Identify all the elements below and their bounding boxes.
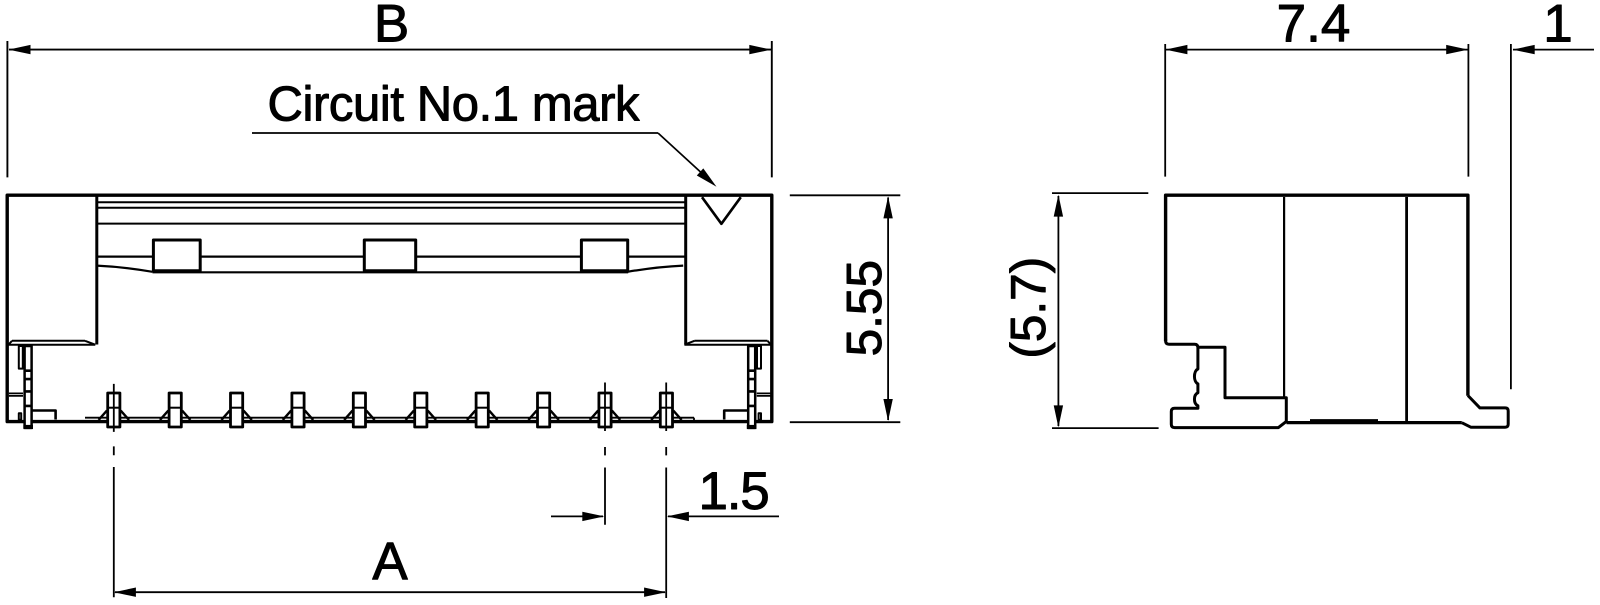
latch boss 1 [153,240,200,271]
dimension 5.7 arrowhead top [1054,195,1063,217]
dimension 1.5 tail left [551,515,603,517]
centerline pin 10 [665,383,667,599]
pin 9 [590,393,620,427]
dimension 1 extension line [1510,44,1512,389]
dimension 5.55 arrowhead top [883,196,892,218]
solder tab right joints [748,371,755,406]
solder tab left lower stub [19,413,21,420]
dimension 5.55 arrowhead bottom [883,399,892,421]
leader Circuit No.1 mark diagonal [658,133,712,183]
svg-text:5.55: 5.55 [837,260,892,356]
cavity upper line segment 2 [200,256,364,258]
dimension 7.4 arrowhead right [1446,45,1468,54]
solder tab left step [32,411,56,420]
dimension A arrowhead left [114,588,136,597]
dimension 7.4 arrowhead left [1165,45,1187,54]
dimension B line [9,49,771,51]
dimension A line [115,591,665,593]
housing top groove line 1 [97,201,686,203]
dimension 5.55 extension bottom [790,421,901,423]
solder tab right step [724,411,748,420]
connector body outline (front view) [7,195,772,421]
cavity upper line segment 1 [97,256,154,258]
end wall inner edge right [684,196,687,345]
pin 2 [160,393,190,427]
dimension 1.5 arrowhead left [582,512,604,521]
housing top groove line 3 [97,223,686,225]
side view bottom seam dash [1310,419,1378,422]
side view metal fitting outer contour [1166,339,1287,428]
seating strip thin line [85,417,694,419]
pin 7 [467,393,497,427]
solder tab right ledge lines [757,393,771,396]
dimension 1 tail [1513,49,1594,51]
dimension 5.55 line [887,198,889,421]
centerline pin 9 [604,383,606,525]
side view body outline [1166,195,1468,396]
svg-text:7.4: 7.4 [1277,0,1351,54]
side view bottom edge [1287,421,1462,424]
dimension 5.7 extension bottom [1052,427,1159,429]
seating strip step right [693,418,695,422]
pin 3 [221,393,251,427]
solder tab left upper bar [19,346,23,369]
end wall bottom chamfer band left [9,341,96,345]
dimension 7.4 extension left [1164,44,1166,177]
dimension 7.4 extension right [1467,44,1469,177]
dimension 5.7 extension top [1052,192,1148,194]
dimension 5.55 extension top [790,194,901,196]
solder tab left leg [25,346,32,428]
pin 5 [344,393,374,427]
cavity lower line [153,271,629,273]
end wall bottom chamfer band right [684,341,771,345]
dimension 1.5 tail right [668,515,779,517]
cavity wave right [628,266,684,272]
svg-text:(5.7): (5.7) [1001,257,1056,359]
solder tab left joints [25,371,32,406]
pin 6 [406,393,436,427]
solder tab right foot cap [747,425,757,429]
dimension 1.5 arrowhead right [667,512,689,521]
svg-text:1.5: 1.5 [698,462,768,521]
side view metal fitting inner contour [1199,347,1287,421]
side view inner line 1 [1283,197,1285,397]
svg-text:Circuit No.1 mark: Circuit No.1 mark [268,78,641,132]
pin 4 [283,393,313,427]
svg-text:1: 1 [1543,0,1572,54]
dimension 5.7 line [1057,196,1059,426]
dimension 1 arrowhead [1513,45,1535,54]
solder tab right leg [748,346,755,428]
leader Circuit No.1 mark underline [252,132,658,134]
latch boss 2 [364,240,415,271]
dimension B extension line right [771,41,773,177]
dimension B arrowhead left [9,45,31,54]
solder tab right upper bar [757,346,761,369]
side view inner line 2 [1405,197,1408,422]
dimension 7.4 line [1166,49,1468,51]
leader Circuit No.1 mark arrowhead [697,168,717,186]
solder tab right lower stub [759,413,761,420]
svg-text:A: A [372,532,408,591]
svg-text:B: B [374,0,409,54]
solder tab left ledge lines [9,393,23,396]
pin 10 [651,393,681,427]
pin 1 [99,393,129,427]
circuit no.1 V mark [702,197,741,224]
side view right solder tab [1462,396,1508,428]
dimension B extension line left [6,41,8,177]
end wall inner edge left [95,196,98,345]
solder tab left foot cap [23,425,33,429]
pin 8 [528,393,558,427]
latch boss 3 [581,240,627,271]
cavity upper line segment 3 [416,256,582,258]
cavity upper line segment 4 [628,256,686,258]
dimension 5.7 arrowhead bottom [1054,405,1063,427]
dimension B arrowhead right [749,45,771,54]
dimension A arrowhead right [644,588,666,597]
cavity wave left [97,266,153,272]
housing top groove line 2 [97,207,686,209]
centerline pin 1 [113,384,115,597]
